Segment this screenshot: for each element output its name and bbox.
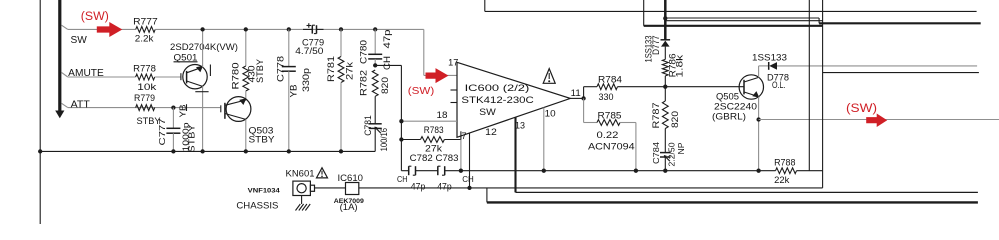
svg-text:D777: D777 bbox=[651, 36, 661, 55]
svg-text:11: 11 bbox=[571, 88, 581, 98]
svg-text:C782: C782 bbox=[410, 153, 433, 163]
wire: line y=18 bbox=[665, 17, 819, 19]
resistor R780 430 bbox=[245, 29, 247, 66]
svg-text:STBY: STBY bbox=[249, 134, 275, 144]
svg-text:NP: NP bbox=[676, 142, 686, 154]
svg-text:27k: 27k bbox=[345, 61, 355, 80]
svg-text:R785: R785 bbox=[598, 111, 622, 121]
warning triangle near KN601 bbox=[317, 168, 328, 178]
wire: line y=192.4 bbox=[516, 191, 978, 193]
wire: thick bottom line y=202.4 bbox=[487, 201, 978, 203]
transistor Q503 bbox=[221, 97, 251, 122]
wire: thick line y=23.3 bbox=[819, 22, 981, 24]
svg-text:0.22: 0.22 bbox=[597, 130, 619, 140]
svg-text:100/16: 100/16 bbox=[379, 128, 389, 151]
(SW) block arrow bbox=[97, 22, 123, 37]
wire: SW output bbox=[759, 119, 999, 121]
resistor R784 330 bbox=[584, 86, 597, 88]
svg-text:YB: YB bbox=[288, 85, 298, 98]
wire: thick bus line bbox=[58, 0, 61, 111]
svg-text:R784: R784 bbox=[598, 75, 622, 85]
svg-text:27k: 27k bbox=[425, 144, 443, 154]
svg-text:C780: C780 bbox=[359, 40, 369, 64]
diode D778 1SS133 bbox=[768, 62, 770, 70]
resistor R777 bbox=[136, 27, 156, 33]
resistor R779 bbox=[136, 105, 155, 111]
svg-text:47p: 47p bbox=[437, 182, 452, 192]
capacitor C780 CH 47p bbox=[373, 27, 377, 31]
wire: thick line y=25.8 bbox=[644, 25, 823, 27]
svg-text:2.2k: 2.2k bbox=[135, 34, 154, 44]
wire: Q505 emitter down bbox=[758, 97, 760, 171]
capacitor C779 4.7/50 bbox=[303, 28, 312, 30]
resistor R788 22k bbox=[776, 168, 797, 174]
svg-text:330p: 330p bbox=[301, 68, 311, 92]
svg-text:7: 7 bbox=[462, 131, 467, 141]
svg-text:2SC2240: 2SC2240 bbox=[714, 102, 757, 112]
chassis ground bbox=[301, 196, 303, 205]
svg-text:IC600 (2/2): IC600 (2/2) bbox=[465, 83, 530, 94]
svg-text:R787: R787 bbox=[651, 103, 661, 129]
wire: thick vertical to D777 bbox=[664, 0, 667, 40]
svg-text:4.7/50: 4.7/50 bbox=[295, 46, 323, 56]
svg-text:C778: C778 bbox=[276, 56, 286, 82]
svg-text:CH: CH bbox=[382, 56, 392, 70]
svg-text:STBY: STBY bbox=[255, 59, 265, 83]
wire: left thin vertical rail bbox=[39, 0, 41, 224]
svg-text:(GBRL): (GBRL) bbox=[712, 112, 746, 122]
svg-text:820: 820 bbox=[670, 111, 680, 128]
bus end arrowhead bbox=[55, 111, 64, 119]
wire: SW row from bus bbox=[62, 25, 68, 29]
svg-text:R779: R779 bbox=[134, 93, 155, 103]
wire: Q501 collector up to SW row bbox=[202, 29, 204, 67]
svg-text:(SW): (SW) bbox=[81, 11, 109, 23]
resistor R781 27k bbox=[339, 27, 343, 31]
svg-text:SW: SW bbox=[479, 107, 496, 117]
diode D777 1SS133 bbox=[661, 39, 671, 41]
wire: Q505 collector up bbox=[758, 66, 760, 78]
svg-text:KN601: KN601 bbox=[286, 169, 315, 180]
svg-text:O.L.: O.L. bbox=[772, 80, 786, 90]
svg-text:10: 10 bbox=[545, 109, 556, 119]
svg-text:C784: C784 bbox=[651, 142, 661, 164]
svg-text:820: 820 bbox=[380, 77, 390, 94]
svg-text:R782: R782 bbox=[359, 70, 369, 96]
capacitor C783 47p bbox=[437, 166, 439, 175]
svg-text:1SS133: 1SS133 bbox=[752, 53, 787, 63]
svg-text:CHASSIS: CHASSIS bbox=[236, 201, 278, 212]
svg-text:2.2/50: 2.2/50 bbox=[667, 142, 677, 166]
resistor R786 1.8k bbox=[662, 59, 668, 76]
wire: drop from y=188 to thick bottom bbox=[486, 188, 488, 203]
svg-text:CH: CH bbox=[397, 174, 408, 184]
svg-text:(SW): (SW) bbox=[408, 85, 435, 97]
resistor R778 bbox=[136, 74, 155, 80]
wire: corner down to pin 17 bbox=[423, 29, 425, 75]
capacitor C778 330p bbox=[287, 27, 291, 31]
pin 18 wire bbox=[401, 120, 457, 122]
wire: jack to IC610 to right bbox=[315, 187, 346, 189]
warning triangle near IC600 bbox=[543, 69, 555, 84]
svg-text:SW: SW bbox=[71, 35, 88, 46]
svg-text:2SD2704K(VW): 2SD2704K(VW) bbox=[170, 42, 238, 52]
svg-text:ATT: ATT bbox=[71, 99, 90, 110]
wire: AMUTE row from bus bbox=[62, 72, 68, 77]
resistor R785 0.22 ACN7094 bbox=[584, 122, 597, 124]
resistor R787 820 bbox=[664, 87, 666, 101]
svg-text:R781: R781 bbox=[326, 56, 336, 82]
svg-text:1.8k: 1.8k bbox=[675, 54, 685, 77]
(SW) output arrow bbox=[866, 114, 887, 128]
svg-text:YB: YB bbox=[178, 104, 188, 117]
wire: ATT row from bus bbox=[62, 103, 68, 107]
capacitor C782 47p bbox=[408, 166, 410, 175]
long node rail y=170.7 bbox=[401, 170, 408, 172]
svg-text:47p: 47p bbox=[411, 182, 426, 192]
wire: SW row to corner bbox=[155, 28, 424, 30]
crossbar under Q501 bbox=[195, 91, 208, 93]
svg-text:330: 330 bbox=[599, 92, 614, 102]
capacitor C777 1000p bbox=[171, 105, 175, 109]
svg-text:CH: CH bbox=[462, 174, 474, 184]
svg-text:18: 18 bbox=[437, 110, 448, 120]
wire: vertical x=643.7 bbox=[643, 0, 645, 26]
tick right of Q501 bbox=[209, 65, 211, 77]
svg-text:VNF1034: VNF1034 bbox=[248, 189, 281, 195]
capacitor C784 2.2/50 NP bbox=[664, 129, 666, 153]
node: bottom ground rail y=151 bbox=[40, 150, 375, 152]
svg-text:22k: 22k bbox=[774, 175, 790, 185]
tick on ATT wire bbox=[186, 104, 188, 111]
wire: C780 node to vertical x=401 bbox=[375, 64, 401, 66]
transistor Q505 2SC2240 bbox=[739, 75, 763, 99]
wire: vertical x=822.6 bbox=[822, 0, 824, 188]
svg-text:AMUTE: AMUTE bbox=[68, 68, 104, 79]
svg-text:(SW): (SW) bbox=[846, 103, 877, 115]
op-amp IC600 STK412-230C triangle bbox=[457, 62, 570, 137]
svg-text:R778: R778 bbox=[133, 64, 156, 74]
wire: Q501 emitter down to rail bbox=[202, 86, 204, 151]
svg-text:17: 17 bbox=[448, 58, 458, 68]
svg-text:R780: R780 bbox=[231, 63, 241, 90]
wire: R778 to Q501 base bbox=[155, 76, 181, 78]
wire: top line y=11.4 bbox=[485, 10, 977, 12]
svg-text:ACN7094: ACN7094 bbox=[588, 141, 635, 151]
svg-text:C781: C781 bbox=[363, 115, 373, 135]
svg-text:47p: 47p bbox=[382, 30, 392, 49]
svg-text:12: 12 bbox=[485, 127, 497, 137]
svg-text:STBY: STBY bbox=[187, 124, 197, 152]
svg-text:R788: R788 bbox=[774, 157, 795, 167]
svg-text:R777: R777 bbox=[133, 17, 158, 27]
wire: Q503 emitter to rail bbox=[245, 119, 247, 151]
svg-text:Q505: Q505 bbox=[716, 92, 739, 102]
svg-text:C777: C777 bbox=[157, 118, 167, 145]
wire: vertical x=809.3 bbox=[808, 0, 810, 171]
wire: line y=20.7 bbox=[665, 20, 822, 22]
svg-text:R783: R783 bbox=[424, 125, 444, 135]
wire: top stub x=484.8 bbox=[484, 0, 486, 11]
svg-text:C783: C783 bbox=[436, 153, 459, 163]
svg-text:STK412-230C: STK412-230C bbox=[461, 95, 534, 106]
svg-text:(1A): (1A) bbox=[340, 202, 358, 213]
svg-text:10k: 10k bbox=[137, 82, 157, 92]
capacitor C781 100/16 bbox=[374, 96, 376, 124]
(SW) arrow at pin17 bbox=[426, 68, 449, 83]
wire: line y=72.6 bbox=[823, 72, 979, 74]
resistor R782 820 bbox=[372, 70, 378, 96]
wire: collector row with D778 bbox=[759, 65, 769, 67]
